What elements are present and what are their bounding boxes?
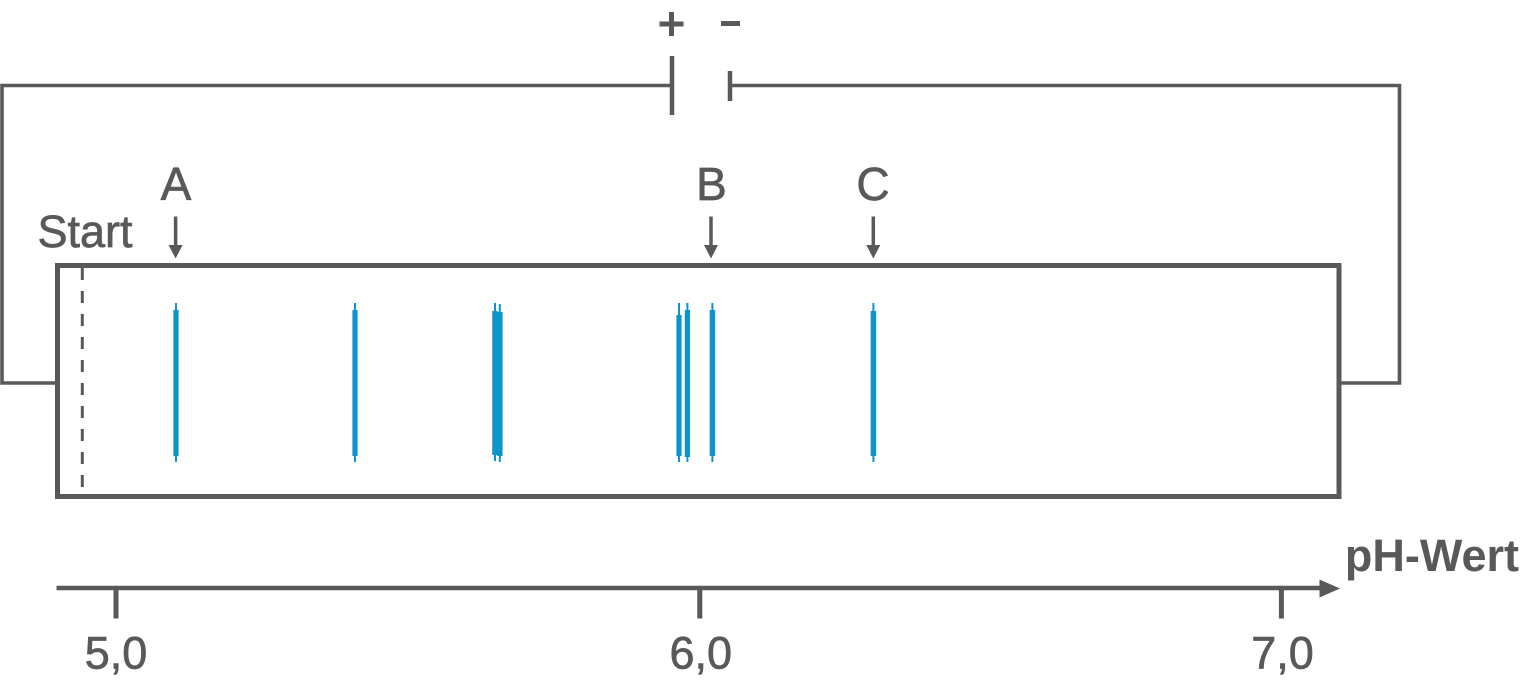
protein band A (blue) [175, 303, 177, 462]
arrow under B [704, 217, 718, 259]
protein band C (blue) [872, 303, 874, 462]
svg-text:A: A [161, 158, 192, 210]
label Start [37, 206, 133, 257]
svg-text:B: B [696, 158, 727, 210]
label A [161, 158, 192, 210]
svg-text:6,0: 6,0 [670, 628, 733, 679]
battery positive plate (long) [670, 56, 675, 115]
axis label pH-Wert [1345, 530, 1519, 581]
protein band 2 (blue) [354, 303, 356, 462]
label B [696, 158, 727, 210]
arrow under C [866, 217, 880, 259]
tick label 5,0 [85, 628, 148, 679]
wire left: from positive battery plate to left side of gel box [2, 86, 670, 384]
protein band 4a (blue pair) [678, 303, 680, 462]
pH axis line [57, 586, 1323, 591]
protein double band 3a (blue) [494, 303, 496, 461]
tick label 6,0 [670, 628, 733, 679]
axis tick 5,0 [114, 588, 119, 619]
gel box (electrophoresis strip) [58, 266, 1340, 497]
axis tick 7,0 [1279, 588, 1284, 619]
axis tick 6,0 [697, 588, 702, 619]
battery minus label [721, 21, 740, 26]
tick label 7,0 [1251, 628, 1314, 679]
battery negative plate (short) [728, 71, 733, 101]
svg-text:5,0: 5,0 [85, 628, 148, 679]
svg-text:Start: Start [37, 206, 133, 257]
protein band 4b (blue pair) [686, 303, 688, 462]
battery plus label [660, 12, 684, 36]
wire right: from negative battery plate to right side of gel box [732, 86, 1400, 384]
svg-text:7,0: 7,0 [1251, 628, 1314, 679]
protein double band 3b (blue) [499, 304, 501, 462]
pH axis arrowhead [1320, 580, 1341, 598]
label C [856, 158, 889, 210]
svg-text:pH-Wert: pH-Wert [1345, 530, 1519, 581]
protein band B (blue) [711, 303, 713, 462]
start line (dashed) [81, 268, 84, 494]
svg-text:C: C [856, 158, 889, 210]
arrow under A [169, 217, 183, 259]
